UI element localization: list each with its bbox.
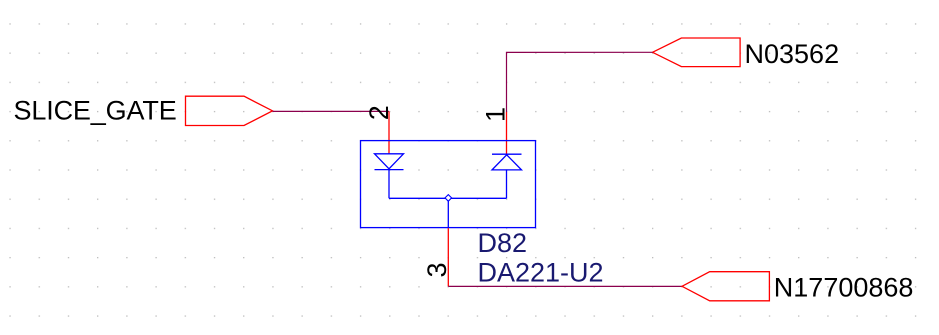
wire pin 3 to N17700868 bbox=[448, 285, 682, 287]
svg-text:SLICE_GATE: SLICE_GATE bbox=[14, 95, 177, 125]
wire internal common anode bbox=[389, 198, 507, 228]
svg-text:1: 1 bbox=[480, 107, 510, 122]
port SLICE_GATE bbox=[186, 96, 273, 125]
diode pair D82 body bbox=[361, 141, 536, 228]
svg-text:DA221-U2: DA221-U2 bbox=[478, 258, 604, 288]
port N03562 bbox=[653, 38, 741, 67]
svg-text:N17700868: N17700868 bbox=[774, 272, 914, 302]
wire SLICE_GATE to pin 2 bbox=[273, 110, 390, 112]
svg-text:D82: D82 bbox=[478, 228, 528, 258]
junction common node bbox=[445, 195, 452, 202]
diode D82 left (anode top, cathode bottom) bbox=[375, 154, 404, 199]
pin 2 bbox=[388, 111, 390, 153]
svg-text:3: 3 bbox=[422, 262, 452, 277]
pin 3 bbox=[447, 228, 449, 286]
wire N03562 to pin 1 bbox=[507, 52, 653, 112]
diode D82 right (cathode top, anode bottom) bbox=[492, 154, 522, 198]
svg-text:2: 2 bbox=[364, 105, 394, 120]
pin 1 bbox=[506, 112, 508, 154]
port N17700868 bbox=[682, 272, 769, 301]
svg-text:N03562: N03562 bbox=[745, 39, 840, 69]
